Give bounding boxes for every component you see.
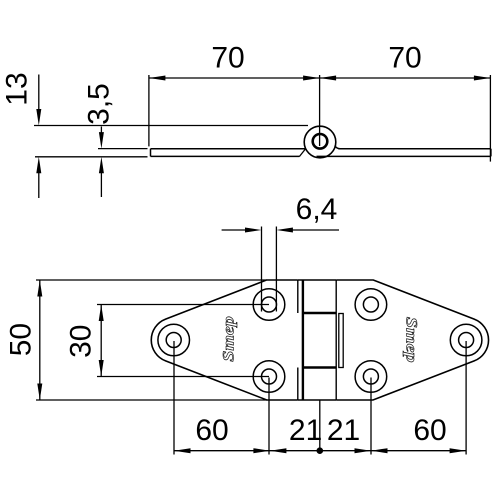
side view: right leaf bottom edge: [317, 155, 491, 157]
plan view: left plate outline: [151, 280, 298, 400]
dimension 13: knuckle-top extension line: [34, 125, 308, 127]
side view: left leaf top edge: [151, 148, 306, 150]
dimension 13: upper arrow line: [38, 75, 40, 112]
extension line from right bottom hole: [370, 378, 372, 455]
svg-text:60: 60: [413, 414, 446, 447]
right top hole countersink: [355, 289, 387, 321]
barrel: left plate edge lower segment: [297, 368, 299, 401]
bottom chain: center dot: [317, 447, 324, 454]
dimension 3,5: leaf-top extension line: [98, 148, 148, 150]
side view: pin bore circle: [313, 134, 328, 149]
dimension 6,4: right leader line: [291, 229, 339, 231]
right top hole bore: [363, 297, 378, 312]
dimension 30: bottom extension line: [97, 376, 269, 378]
dimension 50: top extension line: [36, 279, 267, 281]
bottom chain: left 60 arrows: [174, 448, 191, 453]
right bottom hole bore: [363, 369, 378, 384]
bottom chain: 21 arrows: [270, 448, 287, 453]
dimension 70 right arrow: [474, 76, 491, 81]
side view: knuckle fillet to right leaf: [335, 146, 340, 149]
left bottom hole bore: [262, 369, 277, 384]
dimension 50: bottom extension line: [36, 399, 267, 401]
side view: right leaf top edge: [339, 148, 491, 150]
barrel: left seam thick line: [302, 280, 304, 400]
dimension 6,4: left extension line: [261, 227, 263, 312]
left bottom hole countersink: [253, 361, 285, 393]
svg-text:70: 70: [388, 41, 421, 74]
svg-text:70: 70: [211, 41, 244, 74]
plan view: barrel top edge: [298, 279, 336, 281]
svg-text:50: 50: [4, 323, 37, 356]
right bottom hole countersink: [355, 361, 387, 393]
left top hole bore: [262, 297, 277, 312]
svg-text:60: 60: [195, 414, 228, 447]
barrel: middle knuckle rolled edge: [339, 314, 343, 368]
extension line from left bottom hole: [268, 378, 270, 455]
dimension 70-70: dimension line: [149, 77, 491, 79]
side view: rolled seam diagonal: [299, 149, 306, 157]
side view: knuckle centerline: [319, 75, 321, 146]
right tip hole bore: [459, 333, 474, 348]
side view: right leaf end cap: [490, 149, 492, 157]
dimension 70: left extension line: [148, 75, 150, 146]
dimension 3,5: leaf-bottom extension line: [35, 156, 148, 158]
dimension 50: dimension line: [39, 280, 41, 400]
dimension 3,5: upper arrow line: [100, 127, 102, 135]
barrel: middle knuckle bottom joint (thick): [303, 366, 336, 368]
dimension 3,5: lower arrow line: [100, 171, 102, 197]
svg-text:Smep: Smep: [403, 317, 421, 363]
side view: knuckle outer circle: [304, 126, 336, 158]
svg-text:6,4: 6,4: [296, 193, 338, 226]
dimension 70 middle arrows: [303, 76, 320, 81]
extension line from barrel centerline: [319, 400, 321, 448]
dimension 6,4: left leader line: [222, 229, 246, 231]
side view: left leaf end cap: [150, 149, 152, 157]
dimension 70 left arrow: [149, 76, 166, 81]
svg-text:13: 13: [0, 72, 33, 105]
dimension 70: right extension line: [489, 75, 491, 162]
side view: left leaf bottom edge: [151, 155, 300, 157]
svg-text:21: 21: [289, 414, 322, 447]
extension line from right tip hole: [465, 341, 467, 455]
svg-text:3,5: 3,5: [82, 83, 115, 125]
barrel: middle knuckle top joint (thick): [303, 312, 336, 314]
dimension 30: dimension line: [100, 305, 102, 377]
barrel: left plate edge upper segment: [297, 280, 299, 313]
plan view: right plate outline: [336, 280, 488, 400]
left top hole countersink: [253, 289, 285, 321]
barrel: right plate edge line: [335, 280, 337, 400]
left tip hole bore: [166, 333, 181, 348]
dimension 30: top extension line: [97, 304, 269, 306]
right tip hole countersink: [450, 324, 482, 356]
dimension 6,4: right extension line: [275, 227, 277, 312]
bottom chain dimension line: [174, 450, 466, 452]
svg-text:21: 21: [327, 414, 360, 447]
plan view: barrel bottom edge: [298, 399, 336, 401]
extension line from left tip hole: [173, 341, 175, 455]
svg-text:30: 30: [65, 325, 98, 358]
dimension 13: lower arrow line: [38, 171, 40, 198]
bottom chain: right 60 arrows: [371, 448, 388, 453]
svg-text:Smep: Smep: [219, 316, 237, 362]
left tip hole countersink: [158, 324, 190, 356]
